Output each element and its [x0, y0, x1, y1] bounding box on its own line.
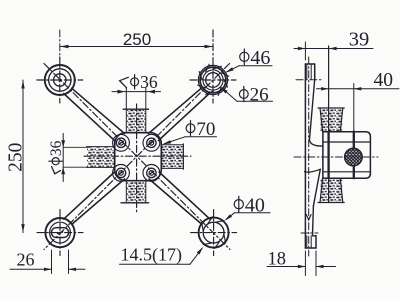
label phi26: [220, 85, 272, 106]
bolt axis line: [353, 84, 355, 179]
crosshair bottom-left: [37, 210, 83, 256]
dimension phi36 left: [48, 134, 88, 182]
side crosshair top arm axis: [296, 79, 322, 81]
label 14.5(17): [120, 245, 204, 266]
label phi46: [225, 47, 272, 73]
dimension 18: [267, 250, 336, 276]
label phi70: [163, 119, 217, 144]
arm-end boss top-left: [45, 65, 75, 95]
centerline hub vertical: [136, 104, 138, 212]
centerline diagonal TR-BL: [44, 64, 230, 250]
side crosshair bottom arm axis: [301, 232, 318, 234]
hub bolt 4: [143, 165, 160, 182]
side centerline horizontal: [294, 156, 378, 158]
arm-end boss top-right (threaded): [198, 64, 229, 95]
glass line: [328, 46, 330, 203]
side boss block: [323, 132, 371, 179]
arm top-left: [64, 88, 125, 140]
centerline diagonal TL-BR: [44, 64, 230, 250]
svg-text:250: 250: [123, 30, 151, 49]
svg-text:18: 18: [268, 250, 287, 270]
side view spider body: [305, 64, 323, 248]
hub bolt 2: [143, 134, 160, 151]
gasket pad top: [123, 88, 148, 133]
svg-text:14.5(17): 14.5(17): [121, 245, 183, 266]
arm-end boss bottom-right: [199, 217, 229, 249]
arm top-right: [149, 88, 210, 140]
crosshair top-right: [190, 30, 236, 103]
hub bolt 1: [113, 134, 130, 151]
side gasket upper: [318, 108, 344, 132]
label phi40: [224, 194, 270, 221]
svg-text:250: 250: [6, 143, 27, 172]
dimension 26: [10, 249, 85, 273]
svg-text:26: 26: [17, 249, 35, 269]
svg-text:26: 26: [250, 85, 269, 106]
dimension 40: [317, 70, 400, 91]
bolt head (knurled): [345, 148, 363, 166]
gasket pad left: [87, 147, 115, 168]
hub plate: [115, 133, 162, 181]
arm bottom-left: [64, 172, 125, 224]
gasket pad right: [162, 144, 184, 170]
side view body centerline: [306, 57, 311, 256]
gasket pad bottom: [121, 181, 149, 203]
dimension 250 vertical: [6, 80, 27, 233]
arm bottom-right: [149, 172, 210, 224]
dimension 250 horizontal: [60, 30, 213, 58]
side gasket lower: [318, 178, 344, 202]
arm-end boss bottom-left (slotted): [45, 218, 74, 247]
centerline hub horizontal: [84, 155, 191, 157]
svg-text:39: 39: [349, 28, 370, 50]
svg-text:40: 40: [373, 70, 393, 91]
crosshair top-left: [37, 57, 83, 103]
dimension 39: [294, 28, 373, 60]
hub bolt 3: [113, 165, 130, 182]
dimension phi36 top: [112, 72, 161, 94]
svg-text:36: 36: [48, 140, 65, 156]
crosshair bottom-right: [191, 210, 237, 256]
svg-text:36: 36: [140, 72, 158, 92]
